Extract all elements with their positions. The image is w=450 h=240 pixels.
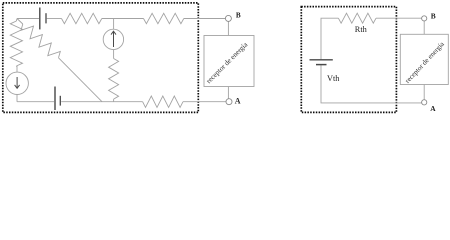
resistor R3 (left vertical) (15, 19, 18, 22)
wire mid node to current source I2 (113, 19, 115, 30)
wire diagonal R4 to bottom wire (59, 58, 103, 102)
wire Rth to terminal B (right) (376, 17, 422, 19)
wire I1 to bottom wire (16, 94, 18, 102)
resistor R4 (diagonal) lead (17, 19, 23, 25)
wire Vth bottom plate to terminal A (right) (321, 65, 422, 103)
svg-text:Vth: Vth (327, 74, 340, 83)
svg-text:A: A (235, 96, 241, 105)
wire Vth top plate to Rth (321, 18, 338, 59)
svg-text:receptor de energía: receptor de energía (205, 40, 250, 85)
svg-text:B: B (236, 12, 241, 20)
terminal B (left) (225, 15, 231, 21)
battery Vth plates (310, 60, 333, 65)
wire R1 to mid node to R2 (102, 18, 144, 20)
resistor R5 (middle vertical) (109, 59, 119, 100)
wire terminal B stub to receptor box (227, 21, 229, 35)
wire R5 to bottom wire (113, 99, 115, 102)
current source I1 (left, arrow down) (6, 72, 28, 94)
svg-text:B: B (431, 12, 436, 21)
resistor R4 (diagonal) zigzag (21, 24, 60, 58)
resistor R2 (top-right horizontal) (144, 13, 184, 23)
wire receptor box to terminal A stub (227, 87, 229, 99)
right dotted box (Thevenin boundary) (301, 7, 396, 113)
resistor Rth (338, 13, 376, 23)
svg-text:A: A (430, 104, 436, 113)
wire R2 to terminal B (184, 18, 226, 20)
svg-text:receptor de energía: receptor de energía (404, 40, 447, 85)
resistor R1 (top-left horizontal) (62, 13, 102, 23)
wire battery V1 to resistor R1 (47, 18, 62, 20)
terminal A (right) (422, 100, 427, 105)
receptor box (right) (400, 34, 448, 84)
wire I2 to resistor R5 (113, 50, 115, 59)
receptor box (left) (204, 36, 254, 87)
battery V1 (top-left) plates (40, 8, 46, 30)
wire battery V2 to resistor R6 (61, 101, 142, 103)
wire receptor box to A stub (right) (423, 85, 425, 100)
wire B stub to receptor box (right) (423, 21, 425, 34)
current source I2 (middle, arrow up) (103, 29, 123, 49)
wire top-left node to battery V1 (17, 18, 39, 20)
resistor R6 (bottom-right horizontal) (143, 96, 183, 107)
left dotted box (network boundary) (3, 3, 199, 113)
bottom wire left segment (17, 101, 54, 103)
wire R3 to current source I1 (16, 66, 18, 72)
wire R6 to terminal A (183, 101, 226, 103)
battery V2 (bottom) plates (55, 87, 60, 111)
terminal B (right) (422, 16, 427, 21)
terminal A (left) (226, 99, 232, 105)
svg-text:Rth: Rth (355, 25, 368, 34)
